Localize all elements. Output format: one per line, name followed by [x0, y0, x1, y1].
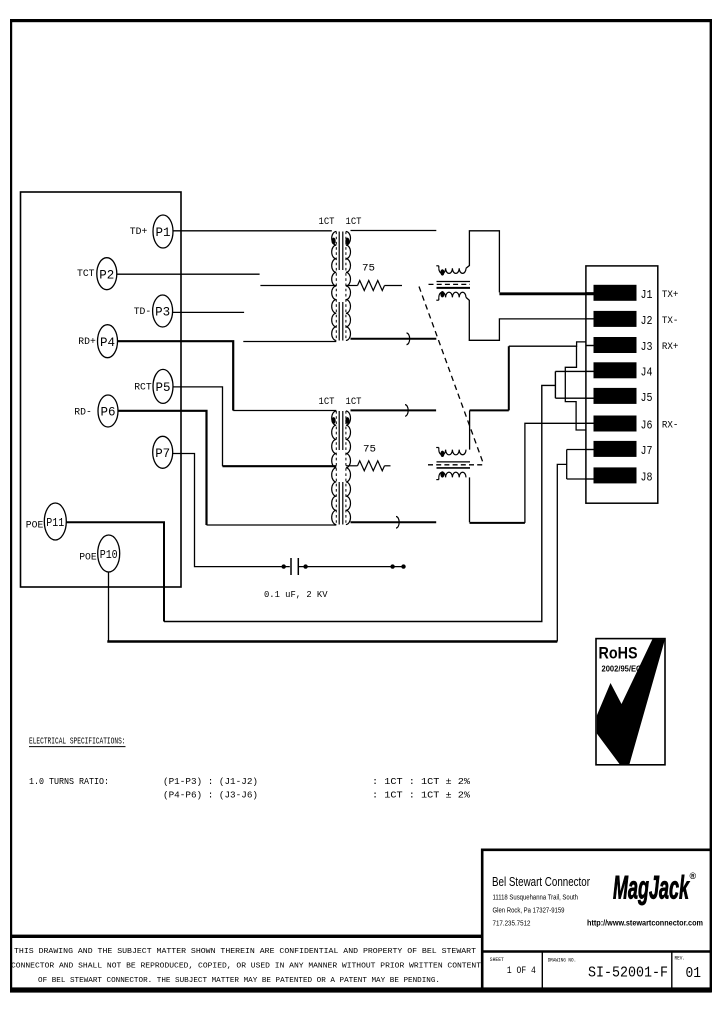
- transformer T2 label 1CT 1CT: [319, 397, 362, 408]
- pin P11: [26, 503, 67, 540]
- svg-text:®: ®: [690, 871, 697, 881]
- jack pin J7: [586, 441, 653, 458]
- svg-text:717.235.7512: 717.235.7512: [493, 921, 531, 928]
- capacitor C1: [282, 558, 406, 575]
- company name and address: [492, 874, 590, 928]
- wire choke L2 to J3: [470, 342, 594, 450]
- revision cell: [675, 955, 702, 983]
- svg-text:TD+: TD+: [130, 227, 148, 238]
- jack pin J1: [586, 285, 653, 302]
- wire branch to J6 stub: [565, 346, 586, 430]
- svg-text:1 OF 4: 1 OF 4: [507, 966, 536, 977]
- svg-text:J4: J4: [641, 367, 653, 380]
- svg-text:RX+: RX+: [662, 342, 679, 353]
- svg-text:0.1 uF, 2 KV: 0.1 uF, 2 KV: [264, 589, 328, 600]
- wire P5 RCT to T2 primary center tap: [173, 387, 336, 466]
- jack pin J3: [586, 337, 653, 354]
- wire P1 TD+ to T1 primary top: [173, 230, 332, 232]
- svg-text:(P1-P3) : (J1-J2): (P1-P3) : (J1-J2): [163, 776, 258, 787]
- transformer T2 windings: [332, 411, 351, 525]
- svg-text:(P4-P6) : (J3-J6): (P4-P6) : (J3-J6): [163, 790, 258, 801]
- wire T1 primary bottom: [243, 341, 336, 343]
- wire P10 POE to J7 J8: [107, 450, 593, 642]
- svg-text:J5: J5: [641, 392, 653, 405]
- transformer T2 phase dots: [332, 417, 350, 424]
- svg-text:2002/95/EC: 2002/95/EC: [602, 665, 642, 674]
- svg-text:: 1CT : 1CT ± 2%: : 1CT : 1CT ± 2%: [372, 790, 470, 801]
- wire P7 to capacitor C1: [173, 454, 290, 567]
- svg-text:RX-: RX-: [662, 421, 679, 432]
- svg-text:CONNECTOR AND SHALL NOT BE REP: CONNECTOR AND SHALL NOT BE REPRODUCED, C…: [11, 963, 481, 971]
- svg-text:P10: P10: [100, 548, 118, 562]
- svg-text:Glen Rock, Pa 17327-9159: Glen Rock, Pa 17327-9159: [493, 908, 565, 915]
- jack pin J6: [586, 416, 653, 433]
- svg-text:75: 75: [363, 445, 376, 456]
- jack J block outline: [586, 266, 658, 503]
- resistor R1 75 ohm: [346, 264, 402, 291]
- wire T2 secondary top: [351, 405, 437, 417]
- svg-text:75: 75: [362, 264, 375, 275]
- pin P3: [134, 295, 173, 327]
- svg-text:1CT: 1CT: [346, 217, 362, 228]
- jack pin J2: [586, 311, 653, 328]
- svg-text:P3: P3: [155, 305, 170, 320]
- svg-text:TCT: TCT: [77, 269, 95, 280]
- svg-text:P5: P5: [156, 380, 171, 395]
- wire P2 TCT segment: [117, 273, 260, 275]
- resistor R2 75 ohm: [346, 445, 391, 471]
- svg-text:RD+: RD+: [78, 337, 96, 348]
- svg-text:OF BEL STEWART CONNECTOR. THE: OF BEL STEWART CONNECTOR. THE SUBJECT MA…: [38, 977, 440, 985]
- turns ratio table: [29, 776, 470, 801]
- svg-text:DRAWING NO.: DRAWING NO.: [548, 957, 577, 964]
- pin P5: [134, 369, 173, 403]
- svg-text:REV.: REV.: [675, 955, 686, 962]
- RoHS logo: [596, 639, 665, 765]
- svg-text:Bel Stewart Connector: Bel Stewart Connector: [492, 874, 590, 889]
- svg-text:P4: P4: [100, 335, 115, 350]
- pin P2: [77, 258, 117, 290]
- wire T1 primary center tap: [260, 285, 336, 287]
- dashed switch line: [419, 287, 484, 465]
- svg-text:J7: J7: [641, 445, 653, 458]
- confidential note box: [10, 935, 482, 938]
- svg-text:SHEET: SHEET: [490, 956, 504, 963]
- svg-text:1CT: 1CT: [346, 397, 362, 408]
- wire T2 secondary bottom: [351, 517, 437, 529]
- svg-text:RD-: RD-: [74, 408, 92, 419]
- jack pin J4: [586, 362, 653, 379]
- pin P7: [153, 436, 173, 468]
- IC / plug block outline: [21, 192, 182, 587]
- pin P6: [74, 395, 118, 427]
- svg-text:P6: P6: [101, 405, 116, 420]
- confidential note text: [11, 948, 481, 985]
- svg-text:: 1CT : 1CT ± 2%: : 1CT : 1CT ± 2%: [372, 776, 470, 787]
- svg-text:J8: J8: [641, 472, 653, 485]
- choke L1 core: [429, 282, 471, 288]
- svg-text:J3: J3: [641, 341, 653, 354]
- wire T1 secondary top: [351, 230, 437, 232]
- title block outline: [481, 849, 711, 991]
- transformer T1 phase dots: [332, 238, 350, 245]
- svg-text:MagJack: MagJack: [613, 870, 690, 906]
- choke L2 top winding: [436, 448, 466, 457]
- svg-text:P2: P2: [99, 267, 114, 282]
- svg-text:P7: P7: [155, 446, 170, 461]
- wire choke L2 to J6: [470, 423, 594, 523]
- svg-text:THIS DRAWING AND THE SUBJECT M: THIS DRAWING AND THE SUBJECT MATTER SHOW…: [14, 948, 476, 956]
- svg-text:http://www.stewartconnector.co: http://www.stewartconnector.com: [587, 919, 703, 928]
- svg-text:P11: P11: [46, 516, 64, 530]
- svg-text:1CT: 1CT: [319, 397, 335, 408]
- svg-text:J1: J1: [641, 289, 653, 302]
- svg-text:POE: POE: [79, 553, 97, 564]
- svg-text:01: 01: [686, 965, 702, 982]
- svg-text:ELECTRICAL SPECIFICATIONS:: ELECTRICAL SPECIFICATIONS:: [29, 736, 126, 747]
- svg-text:RCT: RCT: [134, 383, 152, 394]
- jack pin J5: [586, 388, 653, 405]
- transformer T1 windings: [332, 232, 351, 341]
- choke L2 core: [428, 462, 484, 468]
- svg-text:J2: J2: [641, 315, 653, 328]
- wire P3 TD- segment: [173, 311, 245, 313]
- drawing number cell: [548, 957, 668, 982]
- choke L2 bottom winding: [436, 471, 466, 479]
- svg-text:TD-: TD-: [134, 307, 152, 318]
- pin P10: [79, 535, 120, 572]
- svg-text:RoHS: RoHS: [599, 644, 638, 663]
- svg-text:J6: J6: [641, 420, 653, 433]
- transformer T1 label 1CT 1CT: [319, 217, 362, 228]
- wire choke L1 to J2: [466, 297, 594, 340]
- svg-text:TX-: TX-: [662, 316, 679, 327]
- wire choke L1 to J1: [466, 231, 594, 294]
- svg-text:11118 Susquehanna Trail, South: 11118 Susquehanna Trail, South: [493, 895, 579, 902]
- svg-text:P1: P1: [156, 225, 171, 240]
- sheet cell: [490, 956, 536, 977]
- jack pin J8: [586, 467, 653, 484]
- wire P6 RD- to T2 primary bottom: [118, 411, 336, 525]
- svg-text:1CT: 1CT: [319, 217, 335, 228]
- pin P4: [78, 325, 117, 358]
- wire P11 POE to J4 J5: [66, 371, 593, 621]
- svg-text:SI-52001-F: SI-52001-F: [588, 965, 668, 982]
- wire P4 RD+ to T2 primary top: [118, 341, 337, 410]
- electrical specifications heading: [29, 736, 126, 747]
- svg-text:1.0 TURNS RATIO:: 1.0 TURNS RATIO:: [29, 776, 109, 787]
- choke L1 bottom winding: [436, 291, 466, 300]
- pin P1: [130, 215, 173, 248]
- wire T1 secondary bottom: [351, 333, 437, 345]
- choke L1 top winding: [436, 266, 466, 276]
- svg-text:POE: POE: [26, 521, 44, 532]
- svg-text:TX+: TX+: [662, 290, 679, 301]
